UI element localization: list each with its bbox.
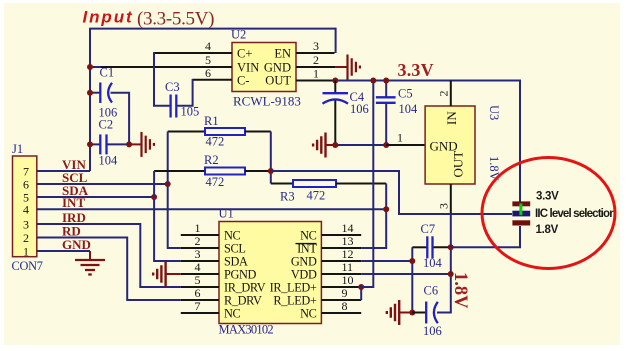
U1 pin 10 stub xyxy=(321,286,361,288)
capacitor C3 xyxy=(169,95,171,118)
wire J1 VIN row xyxy=(37,170,90,172)
capacitor C7 xyxy=(426,236,428,258)
svg-text:6: 6 xyxy=(195,286,201,300)
resistor R1 xyxy=(205,128,245,135)
svg-text:6: 6 xyxy=(23,177,29,191)
U2 pin 3 stub xyxy=(296,52,335,54)
svg-text:J1: J1 xyxy=(12,142,23,156)
svg-text:SCL: SCL xyxy=(224,242,246,256)
wire R1 left drop to SCL xyxy=(167,132,169,185)
U1 pin 2 stub xyxy=(181,247,219,249)
svg-text:106: 106 xyxy=(350,102,369,116)
node VIN rail / pin5 xyxy=(87,64,93,70)
U1 pin 1 stub xyxy=(181,234,219,236)
svg-text:4: 4 xyxy=(195,260,201,274)
node C2 ground xyxy=(126,141,132,147)
svg-text:8: 8 xyxy=(342,299,348,313)
svg-text:C5: C5 xyxy=(398,87,413,101)
resistor R2 xyxy=(205,168,245,175)
svg-text:NC: NC xyxy=(300,307,317,321)
U1 pin 4 stub xyxy=(181,273,219,275)
node INT junction xyxy=(383,206,389,212)
svg-text:106: 106 xyxy=(423,324,442,338)
svg-text:11: 11 xyxy=(342,260,354,274)
capacitor C6 stub xyxy=(412,312,426,314)
wire left VIN rail xyxy=(89,29,91,171)
wire rail to C1 xyxy=(89,92,100,94)
svg-text:U3: U3 xyxy=(487,105,501,120)
svg-text:VIN: VIN xyxy=(237,61,259,75)
highlight ellipse xyxy=(482,158,615,269)
op-amp U2 box xyxy=(232,43,296,92)
wire pullup common to jumper middle xyxy=(271,171,512,214)
U3 pin 3 stub xyxy=(450,184,452,214)
svg-text:2: 2 xyxy=(437,91,451,97)
node C5 bottom xyxy=(383,142,389,148)
wire R3 to INT and U1 pin 13 xyxy=(361,184,386,249)
wire RD to U1 pin 6 xyxy=(37,238,181,301)
capacitor C2 xyxy=(99,134,101,154)
svg-text:104: 104 xyxy=(423,256,443,270)
svg-text:104: 104 xyxy=(99,154,119,168)
U1 pin 13 stub xyxy=(321,247,361,249)
svg-text:3: 3 xyxy=(313,39,319,53)
svg-text:CON7: CON7 xyxy=(12,259,43,273)
svg-text:3: 3 xyxy=(195,247,201,261)
svg-text:7: 7 xyxy=(195,299,201,313)
svg-text:R3: R3 xyxy=(280,189,295,203)
resistor R3 xyxy=(293,180,336,187)
svg-text:C6: C6 xyxy=(424,284,439,298)
U2 pin 4 stub xyxy=(154,52,232,54)
svg-text:C7: C7 xyxy=(421,222,436,236)
capacitor C1 (polarized) xyxy=(99,83,101,104)
svg-text:105: 105 xyxy=(181,105,200,119)
svg-text:3.3V: 3.3V xyxy=(398,60,434,80)
ground tail C6 xyxy=(399,312,412,314)
ground at C2 xyxy=(140,132,142,157)
node rail C5 xyxy=(383,78,389,84)
svg-text:14: 14 xyxy=(342,221,354,235)
svg-text:1: 1 xyxy=(313,67,319,81)
svg-text:9: 9 xyxy=(342,286,348,300)
ground tail U2 pin 2 xyxy=(336,66,348,68)
wire U1 pin 11 VDD row xyxy=(361,273,451,275)
svg-text:1.8V: 1.8V xyxy=(450,272,470,309)
svg-text:13: 13 xyxy=(342,234,354,248)
svg-text:VDD: VDD xyxy=(291,268,317,282)
svg-text:NC: NC xyxy=(224,229,241,243)
INT overline xyxy=(296,243,317,245)
svg-text:R_LED+: R_LED+ xyxy=(273,294,317,308)
node C4 bottom xyxy=(332,142,338,148)
wire IRD to U1 pin 5 xyxy=(37,224,181,287)
wire 3.3V feed to LED node xyxy=(360,81,373,288)
svg-text:C1: C1 xyxy=(100,66,115,80)
jumper shunt green xyxy=(519,203,522,215)
svg-text:MAX30102: MAX30102 xyxy=(219,323,274,337)
wire C1 right leg xyxy=(111,93,130,145)
wire VIN from rail to U2 pin 5 xyxy=(89,66,101,68)
wire C2 to ground node xyxy=(107,143,130,145)
U1 pin 14 stub xyxy=(321,234,361,236)
svg-text:R2: R2 xyxy=(204,153,219,167)
svg-text:472: 472 xyxy=(307,188,326,202)
U2 pin 1 stub xyxy=(296,80,335,82)
U3 pin 2 stub xyxy=(450,81,452,107)
svg-text:7: 7 xyxy=(23,164,29,178)
svg-text:4: 4 xyxy=(23,203,29,217)
wire R2 left drop to SDA xyxy=(153,171,155,197)
svg-text:472: 472 xyxy=(206,135,225,149)
svg-text:IR_LED+: IR_LED+ xyxy=(270,281,317,295)
capacitor C5 stems xyxy=(385,81,387,98)
ground tail C2 xyxy=(129,143,141,145)
node C7 right xyxy=(448,244,454,250)
wire pullup common vertical xyxy=(270,132,272,184)
node feed on rail xyxy=(370,78,376,84)
capacitor C7 stubs xyxy=(412,246,427,248)
svg-text:RCWL-9183: RCWL-9183 xyxy=(233,94,301,109)
wire J1 GND row xyxy=(37,250,90,252)
U1 pin 9 stub xyxy=(321,299,361,301)
U1 pin 7 stub xyxy=(181,312,219,314)
capacitor C6 (polarized) xyxy=(425,302,427,324)
svg-text:PGND: PGND xyxy=(224,268,257,282)
jumper pin middle block xyxy=(512,211,530,217)
svg-text:C-: C- xyxy=(237,74,250,88)
node U2 OUT xyxy=(332,78,338,84)
svg-text:2: 2 xyxy=(23,231,29,245)
jumper pin 3.3V block xyxy=(512,201,530,206)
node VDD tap xyxy=(448,271,454,277)
svg-text:Input: Input xyxy=(83,8,134,27)
svg-text:104: 104 xyxy=(399,102,419,116)
svg-text:1: 1 xyxy=(23,244,29,258)
wire jumper bottom to 1.8V xyxy=(451,226,520,247)
svg-text:4: 4 xyxy=(205,39,211,53)
wire top rail xyxy=(89,28,336,30)
connector J1 box xyxy=(13,156,37,257)
U1 pin 6 stub xyxy=(181,299,219,301)
svg-text:IN: IN xyxy=(444,111,459,125)
wire R2 left lead xyxy=(154,170,205,172)
U1 pin 3 stub xyxy=(181,260,219,262)
svg-text:IIC level selection: IIC level selection xyxy=(535,208,616,220)
ground at J1 xyxy=(75,259,105,261)
ground tail PGND xyxy=(166,273,181,275)
ground at U2 pin 2 xyxy=(346,55,348,80)
U1 pin 11 stub xyxy=(321,273,361,275)
wire SCL to U1 pin 2 xyxy=(168,184,181,248)
U2 pin 6 stub xyxy=(193,79,232,81)
svg-text:1: 1 xyxy=(195,221,201,235)
ground at PGND xyxy=(164,262,166,287)
ground tail mid xyxy=(326,144,336,146)
svg-text:2: 2 xyxy=(313,53,319,67)
svg-text:2: 2 xyxy=(195,234,201,248)
wire R1 right lead xyxy=(245,131,271,133)
capacitor C4 stems xyxy=(334,81,336,94)
node SDA junction xyxy=(151,194,157,200)
U1 pin 12 stub xyxy=(321,260,361,262)
svg-text:EN: EN xyxy=(274,47,291,61)
capacitor C5 xyxy=(376,96,396,98)
capacitor C4 (polarized) xyxy=(323,92,349,94)
svg-text:NC: NC xyxy=(224,307,241,321)
svg-text:OUT: OUT xyxy=(265,74,291,88)
svg-text:3.3V: 3.3V xyxy=(536,191,559,203)
ground at C6 xyxy=(398,300,400,325)
svg-text:3: 3 xyxy=(23,217,29,231)
U2 pin 2 stub xyxy=(296,66,336,68)
wire R1 left lead xyxy=(168,131,205,133)
svg-text:(3.3-5.5V): (3.3-5.5V) xyxy=(137,9,214,30)
U1 pin 5 stub xyxy=(181,286,219,288)
wire U2 pin6 to C3 xyxy=(177,79,193,106)
svg-text:SDA: SDA xyxy=(224,255,248,269)
regulator U3 box xyxy=(425,106,475,184)
svg-text:C3: C3 xyxy=(165,80,180,94)
node rail C1 xyxy=(87,90,93,96)
wire U1 pin 12 GND row xyxy=(361,260,412,262)
wire 1.8V vertical xyxy=(437,213,451,313)
wire U1 pin 9 jog xyxy=(360,286,362,300)
svg-text:1.8V: 1.8V xyxy=(536,224,559,236)
svg-text:GND: GND xyxy=(264,61,291,75)
U2 pin 5 stub xyxy=(100,66,232,68)
wire J1 INT row xyxy=(37,208,386,210)
node rail C2 xyxy=(87,141,93,147)
wire mid ground line xyxy=(335,144,386,146)
svg-text:5: 5 xyxy=(195,273,201,287)
wire U2 pin4 to C3 xyxy=(154,52,170,106)
svg-text:C2: C2 xyxy=(99,118,114,132)
wire EN drop to U2 pin 3 xyxy=(335,28,337,53)
svg-text:U1: U1 xyxy=(219,207,234,221)
wire rail to C2 xyxy=(89,143,100,145)
svg-text:IR_DRV: IR_DRV xyxy=(224,281,266,295)
svg-text:472: 472 xyxy=(206,175,225,189)
svg-text:U2: U2 xyxy=(231,28,246,42)
svg-text:C+: C+ xyxy=(237,47,252,61)
svg-text:GND: GND xyxy=(62,237,91,252)
svg-text:NC: NC xyxy=(300,229,317,243)
wire J1 SDA row xyxy=(37,196,154,198)
svg-text:GND: GND xyxy=(291,255,317,269)
svg-text:R_DRV: R_DRV xyxy=(224,294,262,308)
svg-text:OUT: OUT xyxy=(451,151,466,178)
svg-text:1: 1 xyxy=(397,131,403,145)
wire C7 left drop / gnd branch xyxy=(411,247,413,312)
wire R3 right lead xyxy=(336,183,386,185)
U3 pin 1 stub xyxy=(386,144,425,146)
node C6 ground xyxy=(409,310,415,316)
node SCL junction xyxy=(165,181,171,187)
ground stem J1 xyxy=(89,251,91,260)
node LED drive xyxy=(358,284,364,290)
svg-text:R1: R1 xyxy=(204,114,219,128)
node pullup common xyxy=(268,168,274,174)
jumper pin 1.8V block xyxy=(512,220,530,225)
svg-text:12: 12 xyxy=(342,247,354,261)
svg-text:10: 10 xyxy=(342,273,354,287)
chip U1 box xyxy=(219,222,321,324)
svg-text:6: 6 xyxy=(205,66,211,80)
wire J1 SCL row xyxy=(37,183,168,185)
wire R3 left lead xyxy=(271,183,293,185)
wire 3.3V rail to jumper top xyxy=(335,81,520,202)
wire R2 right lead xyxy=(245,170,271,172)
U1 pin 8 stub xyxy=(321,312,361,314)
ground mid left-pointing xyxy=(324,133,326,158)
wire SDA to U1 pin 3 xyxy=(154,197,181,261)
svg-text:3: 3 xyxy=(437,203,451,209)
node GND row C7 xyxy=(409,258,415,264)
